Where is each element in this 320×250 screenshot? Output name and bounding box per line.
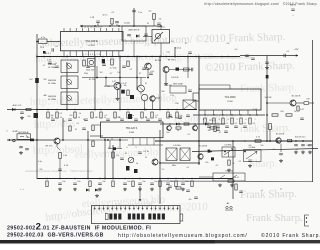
blob t206 bbox=[176, 68, 180, 71]
band filter box B2 bbox=[61, 76, 78, 89]
connector X1 body bbox=[92, 206, 181, 224]
svg-text:1.38: 1.38 bbox=[47, 60, 51, 62]
wire t301 out bbox=[296, 102, 304, 104]
svg-text:5.6: 5.6 bbox=[159, 19, 162, 21]
transistor T202 box bbox=[88, 59, 96, 66]
svg-text:100: 100 bbox=[280, 111, 283, 113]
ground cb2 bbox=[98, 188, 102, 191]
svg-text:7: 7 bbox=[254, 119, 255, 121]
wire v113 bbox=[112, 145, 114, 179]
ground ca3 bbox=[279, 159, 283, 162]
junction 22 bbox=[198, 140, 200, 142]
wire v312 bbox=[312, 40, 314, 182]
capacitor C31 bbox=[115, 22, 119, 23]
svg-text:6: 6 bbox=[126, 147, 127, 149]
capacitor Cx12 bbox=[251, 58, 255, 59]
svg-text:0.1: 0.1 bbox=[226, 123, 229, 125]
resistor Rs2 bbox=[228, 180, 234, 182]
svg-text:1k: 1k bbox=[78, 117, 80, 119]
capacitor Cu1 bbox=[216, 126, 220, 127]
svg-text:BK2 MW-4F: BK2 MW-4F bbox=[18, 132, 29, 134]
capacitor C216 bbox=[192, 68, 193, 72]
svg-text:1k: 1k bbox=[79, 113, 81, 115]
svg-text:0.1: 0.1 bbox=[217, 123, 220, 125]
svg-text:10n: 10n bbox=[154, 181, 157, 183]
svg-text:Frank Sharp.: Frank Sharp. bbox=[240, 188, 297, 201]
svg-text:BC 318 B: BC 318 B bbox=[276, 134, 285, 136]
svg-text:2: 2 bbox=[210, 119, 211, 121]
arrow x1 feed bbox=[139, 199, 141, 201]
svg-text:0.1: 0.1 bbox=[156, 115, 159, 117]
wire fl201 bbox=[143, 36, 152, 38]
capacitor Ca3 bbox=[279, 154, 283, 155]
filter box FL2 ABST bbox=[122, 26, 146, 41]
svg-text:47: 47 bbox=[219, 132, 221, 134]
resistor R1 on left rail bbox=[35, 78, 39, 83]
blob C214 bbox=[121, 90, 125, 94]
volume pot P401 bbox=[128, 157, 134, 163]
capacitor Cm1 bbox=[68, 119, 72, 120]
svg-text:0.1: 0.1 bbox=[172, 41, 175, 43]
svg-text:4: 4 bbox=[227, 119, 228, 121]
wire sound bus bbox=[160, 162, 199, 164]
svg-text:4n 1n: 4n 1n bbox=[102, 15, 107, 17]
resistor R3 bbox=[26, 108, 31, 110]
diode D1 bbox=[12, 108, 15, 111]
svg-text:220k: 220k bbox=[84, 73, 88, 75]
resistor R307 bbox=[269, 124, 272, 130]
wire top right bus bbox=[240, 55, 298, 57]
capacitor Cb1 bbox=[73, 183, 77, 184]
svg-text:TCA 4500: TCA 4500 bbox=[224, 96, 236, 99]
junction 6 bbox=[66, 56, 68, 58]
ground c430 bbox=[248, 164, 252, 167]
svg-text:5: 5 bbox=[135, 147, 136, 149]
resistor R220 bbox=[214, 126, 216, 132]
junction t306a bbox=[295, 140, 297, 142]
svg-text:29502-002.03 GB-VERS./VERS.GB: 29502-002.03 GB-VERS./VERS.GB bbox=[7, 233, 104, 239]
svg-text:0.1: 0.1 bbox=[187, 167, 190, 169]
junction mb1 bbox=[96, 77, 98, 79]
capacitor Cm2 bbox=[84, 119, 88, 120]
junction 30 bbox=[87, 139, 89, 141]
wire bp210 top bbox=[160, 26, 162, 30]
junction s2 bbox=[224, 151, 226, 153]
capacitor C218 bbox=[149, 73, 153, 74]
wire left vertical bbox=[36, 34, 38, 179]
resistor R430 bbox=[228, 160, 230, 165]
junction 3 bbox=[133, 25, 135, 27]
junction r307 bbox=[269, 140, 271, 142]
svg-text:0.1: 0.1 bbox=[60, 113, 63, 115]
resistor Ru4 bbox=[240, 118, 242, 124]
wire bp210 bottom bbox=[160, 43, 162, 57]
junction 25 bbox=[266, 114, 268, 116]
junction 19 bbox=[87, 178, 89, 180]
transistor T210 bbox=[193, 126, 198, 131]
svg-text:22n: 22n bbox=[260, 145, 263, 147]
svg-text:BC 148 B: BC 148 B bbox=[292, 96, 301, 98]
svg-text:0.1: 0.1 bbox=[105, 115, 108, 117]
wire audio bus bbox=[155, 140, 313, 142]
filter F401 box bbox=[166, 148, 177, 161]
capacitor Cm7 bbox=[158, 119, 162, 120]
wire l210 top bbox=[140, 78, 142, 86]
wire x1 feed bbox=[139, 186, 141, 201]
svg-text:47: 47 bbox=[139, 73, 141, 75]
wire v63 bbox=[62, 118, 64, 140]
svg-text:4.7 100: 4.7 100 bbox=[110, 68, 118, 70]
resistor Rb1 bbox=[89, 181, 91, 187]
svg-text:47n: 47n bbox=[166, 132, 169, 134]
svg-text:47n: 47n bbox=[205, 162, 208, 164]
blob C213 bbox=[102, 59, 105, 63]
watermark bbox=[25, 31, 303, 224]
svg-text:0.1: 0.1 bbox=[77, 123, 80, 125]
resistor Rm7 bbox=[141, 112, 143, 118]
capacitor Cx5 bbox=[142, 68, 146, 69]
wire r201 bbox=[37, 41, 39, 43]
svg-text:obsoletetellyemuseum.blogspot.: obsoletetellyemuseum.blogspot.com ©2010 … bbox=[25, 169, 94, 173]
svg-text:6: 6 bbox=[245, 119, 246, 121]
resistor R204 bbox=[153, 14, 156, 20]
capacitor Cx3 bbox=[102, 64, 106, 65]
junction t306b bbox=[302, 140, 304, 142]
svg-text:1k2: 1k2 bbox=[99, 72, 102, 74]
ground tr3a bbox=[218, 184, 222, 187]
junction 28 bbox=[198, 162, 200, 164]
resistor Rm0 bbox=[47, 112, 49, 118]
band filter coil L2 bbox=[67, 80, 72, 85]
wire top feed vertical bbox=[133, 8, 135, 26]
capacitor Cb2 bbox=[98, 183, 102, 184]
wire r101 bbox=[59, 159, 61, 167]
svg-text:47: 47 bbox=[147, 23, 149, 25]
blob u3 bbox=[113, 147, 116, 150]
transistor T205 bbox=[150, 96, 155, 101]
ic U3 pins bbox=[104, 138, 106, 140]
svg-text:5.5 MHz: 5.5 MHz bbox=[173, 145, 180, 147]
blob audio1 bbox=[126, 166, 130, 171]
junction 18 bbox=[159, 109, 161, 111]
svg-text:2.2k: 2.2k bbox=[170, 95, 174, 97]
svg-text:22n: 22n bbox=[306, 145, 309, 147]
capacitor Cb5 bbox=[150, 183, 154, 184]
terminal in bbox=[13, 139, 16, 142]
transistor T306 bbox=[276, 138, 281, 143]
capacitor Cx11 bbox=[245, 55, 249, 56]
capacitor C430 bbox=[248, 160, 252, 161]
svg-text:BC 238: BC 238 bbox=[89, 79, 95, 81]
capacitor Cx9 bbox=[224, 131, 228, 132]
junction 13 bbox=[198, 56, 200, 58]
ground t204 bbox=[116, 97, 120, 100]
transistor T206 bbox=[163, 67, 169, 73]
svg-text:AM: AM bbox=[44, 94, 47, 97]
wire c30 stub bbox=[97, 23, 99, 26]
wire t301 in bbox=[267, 102, 290, 104]
ground cf bbox=[19, 151, 23, 154]
capacitor Cs1 bbox=[168, 186, 172, 187]
resistor R101 bbox=[59, 153, 62, 159]
resistor Rx0 bbox=[176, 127, 181, 129]
junction 2 bbox=[118, 25, 120, 27]
capacitor C402 bbox=[120, 158, 124, 159]
svg-text:1k: 1k bbox=[60, 117, 62, 119]
svg-text:10.7 MHz: 10.7 MHz bbox=[48, 99, 56, 101]
svg-text:IC400: IC400 bbox=[129, 132, 135, 134]
resistor Ru5 bbox=[249, 118, 251, 124]
transistor T401 bbox=[152, 159, 158, 165]
svg-text:10k: 10k bbox=[50, 115, 53, 117]
junction 1 bbox=[109, 25, 111, 27]
wire v105 bbox=[104, 140, 106, 179]
filter FL201 trimmer bbox=[155, 33, 160, 38]
svg-text:1 2 3 4 5 6 7 8: 1 2 3 4 5 6 7 8 bbox=[83, 54, 101, 56]
svg-text:10n: 10n bbox=[77, 181, 80, 183]
junction 21 bbox=[159, 178, 161, 180]
transistor T203 bbox=[145, 63, 151, 69]
wire v120 bbox=[119, 57, 121, 110]
capacitor Cx2 bbox=[86, 66, 90, 67]
svg-text:1n: 1n bbox=[132, 115, 134, 117]
svg-text:10n: 10n bbox=[102, 181, 105, 183]
svg-text:220k 1k2: 220k 1k2 bbox=[86, 70, 95, 72]
junction 14 bbox=[36, 109, 38, 111]
svg-text:0.1: 0.1 bbox=[56, 46, 59, 48]
capacitor Cu0 bbox=[207, 126, 211, 127]
svg-text:4.7: 4.7 bbox=[110, 73, 113, 75]
svg-text:0.1: 0.1 bbox=[188, 134, 191, 136]
diode D81 bbox=[95, 189, 98, 192]
ground agc bbox=[20, 116, 24, 119]
ground cb3 bbox=[123, 188, 127, 191]
svg-text:16 15 14 13 12 11 10 9: 16 15 14 13 12 11 10 9 bbox=[81, 27, 103, 29]
resistor R402 bbox=[92, 125, 94, 131]
capacitor Cx6 bbox=[168, 115, 172, 116]
svg-text:TBA 120 S: TBA 120 S bbox=[126, 127, 138, 130]
connector X1 pins bbox=[94, 206, 96, 210]
capacitor C103 bbox=[82, 128, 86, 129]
resistor Rm6 bbox=[127, 112, 129, 118]
capacitor Cb3 bbox=[123, 183, 127, 184]
svg-text:4.7: 4.7 bbox=[43, 65, 46, 67]
junction u3c bbox=[119, 139, 121, 141]
svg-text:10: 10 bbox=[136, 163, 138, 165]
ground c311 bbox=[265, 66, 269, 69]
band filter coil L1 bbox=[67, 64, 72, 69]
svg-text:BRG 31 AF: BRG 31 AF bbox=[173, 83, 183, 86]
svg-text:·: · bbox=[8, 32, 9, 36]
resistor Rm4 bbox=[100, 112, 102, 118]
junction u3b bbox=[107, 139, 109, 141]
resistor R401 bbox=[112, 152, 115, 158]
svg-text:⊥ ⊥: ⊥ ⊥ bbox=[20, 188, 25, 191]
svg-text:BF 173: BF 173 bbox=[46, 146, 54, 148]
ground t206 bbox=[164, 82, 168, 85]
ic U2 pins bbox=[204, 110, 206, 115]
junction 10 bbox=[159, 56, 161, 58]
op-amp U1 TCA440 body bbox=[61, 32, 124, 51]
svg-text:0.1: 0.1 bbox=[239, 161, 242, 163]
resistor R311 bbox=[297, 106, 299, 111]
junction s3 bbox=[244, 151, 246, 153]
capacitor Cm0 bbox=[51, 119, 55, 120]
op-amp U1 pins bbox=[63, 28, 65, 32]
svg-text:10.7 MHz: 10.7 MHz bbox=[48, 67, 56, 69]
svg-text:1.8k: 1.8k bbox=[63, 155, 67, 157]
transistor T301 bbox=[290, 100, 296, 106]
wire t206 gnd bbox=[165, 73, 167, 83]
wire if in bbox=[7, 139, 54, 141]
svg-text:100: 100 bbox=[306, 99, 309, 101]
ic U2 body bbox=[199, 89, 261, 110]
resistor Rm2 bbox=[74, 112, 76, 118]
resistor Rs1 bbox=[176, 187, 181, 189]
wire mid bus bbox=[37, 109, 197, 111]
capacitor C1 feed bbox=[132, 11, 136, 12]
svg-text:1k: 1k bbox=[104, 117, 106, 119]
svg-text:Frank Sharp.: Frank Sharp. bbox=[240, 82, 297, 95]
capacitor Cm3 bbox=[106, 119, 110, 120]
svg-text:0.1: 0.1 bbox=[253, 123, 256, 125]
resistor Rm9 bbox=[167, 112, 169, 118]
blob s1 bbox=[208, 150, 211, 153]
capacitor Cf2 bbox=[25, 149, 29, 150]
svg-text:1k: 1k bbox=[170, 117, 172, 119]
svg-text:1: 1 bbox=[202, 119, 203, 121]
transistor T204 bbox=[114, 83, 121, 90]
svg-text:0.1: 0.1 bbox=[273, 149, 276, 151]
capacitor Cx0 bbox=[48, 62, 52, 63]
resistor R310 bbox=[304, 102, 309, 105]
svg-text:47n: 47n bbox=[248, 145, 251, 147]
svg-text:47: 47 bbox=[145, 117, 147, 119]
junction 11 bbox=[174, 56, 176, 58]
ground cb5 bbox=[150, 188, 154, 191]
capacitor Cs2 bbox=[186, 190, 190, 191]
junction 12 bbox=[187, 56, 189, 58]
svg-text:BL 1k2: BL 1k2 bbox=[104, 86, 110, 88]
resistor R211 bbox=[111, 59, 114, 65]
svg-text:1k: 1k bbox=[177, 130, 179, 132]
svg-text:5.5: 5.5 bbox=[162, 169, 165, 171]
diode D2 bbox=[136, 35, 139, 38]
svg-text:TCA 440 E: TCA 440 E bbox=[85, 39, 98, 43]
svg-text:7: 7 bbox=[117, 147, 118, 149]
transistor T101 bbox=[54, 138, 60, 144]
capacitor Cs5 bbox=[194, 197, 198, 198]
ifbox B4 bbox=[170, 86, 186, 93]
svg-text:0.1: 0.1 bbox=[55, 63, 58, 65]
wire u3 low bbox=[60, 139, 128, 141]
svg-text:4.7n: 4.7n bbox=[41, 37, 45, 39]
capacitor Cm6 bbox=[146, 119, 150, 120]
arrow top right bbox=[296, 54, 298, 56]
wire sound bus 2 bbox=[192, 149, 318, 152]
resistor R103 bbox=[69, 126, 71, 131]
diode D210 bbox=[205, 123, 208, 126]
resistor R312 bbox=[272, 114, 278, 116]
wire v160b bbox=[159, 130, 161, 204]
svg-text:.com/ ©2010: .com/ ©2010 bbox=[150, 201, 209, 214]
wire v95 bbox=[94, 57, 96, 110]
capacitor Ca2 bbox=[308, 145, 312, 146]
svg-text:TON 4.43: TON 4.43 bbox=[225, 171, 233, 173]
connector marks right bbox=[226, 206, 228, 208]
wire u2 top bbox=[199, 84, 230, 86]
junction 24 bbox=[266, 140, 268, 142]
svg-text:1k 0.5W: 1k 0.5W bbox=[265, 97, 272, 99]
junction mb5 bbox=[147, 77, 149, 79]
svg-text:5.5 MHz: 5.5 MHz bbox=[224, 145, 231, 147]
wire t204 em bbox=[117, 90, 119, 98]
svg-text:3: 3 bbox=[218, 119, 219, 121]
svg-text:10n: 10n bbox=[127, 181, 130, 183]
svg-text:5.6k: 5.6k bbox=[150, 71, 154, 73]
wire v188 bbox=[187, 57, 189, 79]
svg-text:47n: 47n bbox=[188, 199, 191, 201]
svg-text:47n: 47n bbox=[69, 115, 72, 117]
wire u3 sub2 bbox=[119, 140, 121, 149]
capacitor Cm4 bbox=[120, 119, 124, 120]
wire t205 out bbox=[156, 97, 160, 99]
svg-text:Frank Sharp.: Frank Sharp. bbox=[246, 212, 303, 224]
wire main top bus bbox=[37, 56, 240, 58]
wire v160 bbox=[159, 57, 161, 110]
junction u3a bbox=[104, 139, 106, 141]
resistor R30 bbox=[111, 19, 113, 25]
junction 32 bbox=[36, 41, 38, 43]
svg-text:10n: 10n bbox=[142, 181, 145, 183]
band filter box B3 bbox=[61, 92, 78, 105]
svg-text:220: 220 bbox=[117, 117, 120, 119]
diode D401 bbox=[176, 123, 179, 126]
svg-text:AGC 4.7k: AGC 4.7k bbox=[13, 104, 22, 107]
svg-text:1k: 1k bbox=[155, 117, 157, 119]
junction dots extra bbox=[47, 109, 49, 111]
svg-text:5: 5 bbox=[236, 119, 237, 121]
junction 0 bbox=[94, 25, 96, 27]
ground d81 bbox=[95, 194, 99, 197]
wire r307 bbox=[269, 130, 271, 142]
resistor R403 bbox=[92, 141, 94, 147]
svg-text:FM: FM bbox=[176, 103, 179, 105]
junction 29 bbox=[62, 139, 64, 141]
wire u3 sub3 bbox=[108, 148, 122, 150]
svg-text:0-4: 0-4 bbox=[149, 11, 152, 13]
junction 26 bbox=[36, 139, 38, 141]
svg-text:Sharp.: Sharp. bbox=[249, 158, 278, 170]
junction 17 bbox=[119, 109, 121, 111]
svg-text:5.5 MHz: 5.5 MHz bbox=[249, 147, 256, 149]
capacitor Cx1 bbox=[55, 66, 59, 67]
junction 4 bbox=[160, 25, 162, 27]
transistor T202 bbox=[89, 60, 93, 64]
svg-text:⊥: ⊥ bbox=[261, 189, 263, 192]
wire sound out bus bbox=[158, 180, 313, 183]
ic U2 side box bbox=[193, 93, 199, 101]
junction mb3 bbox=[119, 77, 121, 79]
capacitor Ca1 bbox=[301, 145, 305, 146]
capacitor blob s2 bbox=[211, 157, 214, 160]
junction v105 bbox=[104, 178, 106, 180]
trimmer box TR2 bbox=[244, 150, 262, 162]
ic U3 body bbox=[101, 122, 164, 138]
resistor Rb6 bbox=[191, 181, 193, 187]
ground ca1 bbox=[301, 151, 305, 154]
svg-text:1.5n: 1.5n bbox=[138, 12, 142, 14]
